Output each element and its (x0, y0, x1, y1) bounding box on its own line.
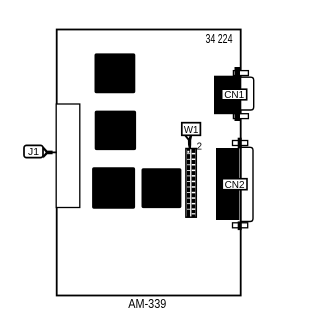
CN2 bottom screw tab (233, 223, 248, 228)
CN1 label box (222, 89, 247, 100)
CN2 top screw tab (233, 141, 248, 146)
J1 callout box (24, 145, 43, 157)
connector J1 (edge connector rectangle) (56, 104, 80, 208)
CN1 bottom screw tab (233, 114, 248, 119)
svg-text:W1: W1 (184, 124, 199, 136)
CN2 label box (222, 179, 247, 190)
J1 callout pointer (43, 146, 57, 158)
IC U2 (second black square) (95, 111, 136, 151)
jumper strip W1 body (186, 149, 196, 218)
connector CN2 D-sub shell (241, 147, 253, 221)
CN1 body (214, 76, 241, 115)
svg-text:J1: J1 (28, 146, 39, 158)
IC U3 (bottom-left black square) (92, 167, 135, 209)
connector CN1 D-sub shell (240, 77, 254, 110)
board outline (57, 30, 241, 296)
svg-text:2: 2 (197, 140, 203, 152)
CN2 body (216, 148, 239, 220)
CN1 top stub (235, 67, 241, 77)
svg-text:AM-339: AM-339 (128, 297, 166, 311)
svg-text:CN1: CN1 (224, 89, 244, 101)
svg-text:34 224: 34 224 (206, 32, 233, 46)
IC U4 (bottom-right black square) (142, 168, 182, 208)
IC U1 (top black square) (95, 53, 136, 93)
CN2 bottom stub (238, 221, 242, 230)
CN1 top screw tab (233, 71, 248, 76)
W1 callout pointer (184, 136, 192, 149)
W1 callout box (182, 123, 201, 136)
svg-text:CN2: CN2 (225, 179, 245, 191)
CN2 top stub (238, 138, 242, 149)
CN1 bottom stub (235, 112, 241, 121)
